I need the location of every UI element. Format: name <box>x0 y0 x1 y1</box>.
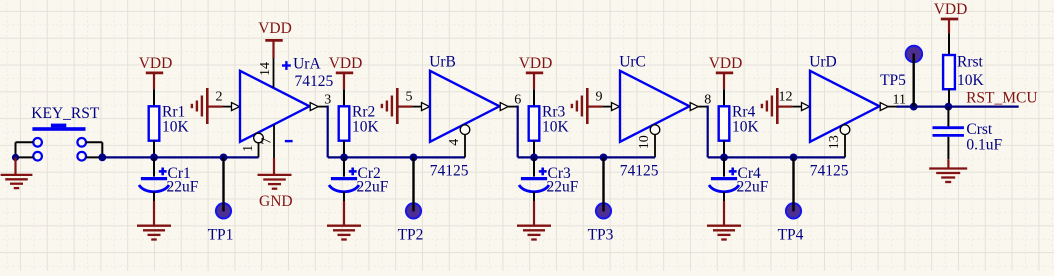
ground below Cr3 <box>517 226 551 240</box>
ground below Cr4 <box>707 226 741 240</box>
designator UrD <box>809 54 837 71</box>
svg-text:74125: 74125 <box>810 163 849 180</box>
wire node rail stage 2 <box>328 156 465 158</box>
svg-text:VDD: VDD <box>519 55 553 72</box>
wire signal-ground to pin 12 <box>777 105 792 107</box>
wire Crst to ground <box>947 137 949 169</box>
resistor Rrst 10K <box>943 55 955 89</box>
svg-text:VDD: VDD <box>709 55 743 72</box>
pin number 7 <box>259 138 274 145</box>
op-amp buffer UrD 74125 <box>810 71 880 142</box>
svg-text:0.1uF: 0.1uF <box>966 137 1002 154</box>
junction TP4 <box>790 154 798 162</box>
wire VDD to Rr2 <box>343 89 345 106</box>
svg-text:UrB: UrB <box>429 54 456 71</box>
power port VDD (Rr3) <box>519 55 553 89</box>
wire Cr4 to ground <box>723 192 725 226</box>
output pin 3 of UrA <box>310 103 326 111</box>
wire Rrst to node <box>948 89 950 106</box>
resistor Rr4 10K <box>719 106 730 140</box>
ground below Crst <box>929 169 967 183</box>
wire VDD to Rr1 <box>153 89 155 106</box>
capacitor Cr1 22uF <box>139 157 169 191</box>
ground below Cr1 <box>137 226 171 240</box>
capacitor Crst 0.1uF <box>933 107 964 136</box>
resistor Rr1 10K <box>149 106 160 140</box>
svg-text:22uF: 22uF <box>547 179 579 196</box>
junction TP1 <box>220 154 228 162</box>
value 22uF <box>357 179 389 196</box>
svg-text:UrC: UrC <box>619 54 646 71</box>
wire Rr2 to node <box>343 141 345 158</box>
svg-text:10K: 10K <box>732 119 760 136</box>
enable pin 10 of UrC (active-low bubble) <box>650 125 660 158</box>
junction Rr3/Cr3 node <box>530 154 538 162</box>
ground at key <box>1 157 33 188</box>
svg-text:10K: 10K <box>352 119 380 136</box>
svg-text:UrD: UrD <box>809 54 837 71</box>
net label GND <box>259 193 293 210</box>
wire VDD to Rrst <box>948 33 950 55</box>
designator UrB <box>429 54 456 71</box>
svg-text:22uF: 22uF <box>167 179 199 196</box>
signal-ground at input pin 12 of UrD <box>762 88 777 124</box>
label Crst <box>966 121 993 138</box>
pin 9 of UrC <box>603 103 620 111</box>
wire Rr4 to node <box>723 141 725 158</box>
label Rr3 <box>542 104 566 121</box>
svg-text:5: 5 <box>406 90 413 105</box>
wire signal-ground to pin 9 <box>587 105 602 107</box>
pin 7 of UrA <box>273 125 275 158</box>
svg-text:VDD: VDD <box>258 20 292 37</box>
pin number 4 <box>447 139 462 146</box>
svg-text:Rrst: Rrst <box>957 54 984 71</box>
value 10K <box>542 119 570 136</box>
wire Rr1 to node <box>153 141 155 158</box>
wire signal-ground to pin 2 <box>207 105 222 107</box>
junction TP2 <box>410 154 418 162</box>
svg-text:10K: 10K <box>542 119 570 136</box>
svg-text:7: 7 <box>259 138 274 145</box>
pin number 2 <box>216 90 223 105</box>
wire Cr1 to ground <box>153 192 155 226</box>
wire output UrD <box>897 105 1019 107</box>
junction TP3 <box>600 154 608 162</box>
pin number 6 <box>514 92 521 107</box>
value 10K (Rrst) <box>957 72 985 89</box>
pin number 14 <box>258 62 273 76</box>
svg-text:6: 6 <box>514 92 521 107</box>
pin 2 of UrA <box>223 103 240 111</box>
value 10K <box>162 119 190 136</box>
label TP3 <box>588 227 614 244</box>
enable pin 1 of UrA (active-low bubble) <box>254 133 264 157</box>
wire output UrA <box>327 107 328 158</box>
junction Rr2/Cr2 node <box>340 154 348 162</box>
svg-text:10: 10 <box>637 135 652 149</box>
test point TP5 <box>906 46 922 62</box>
pin 12 of UrD <box>793 103 810 111</box>
svg-text:KEY_RST: KEY_RST <box>31 105 100 122</box>
capacitor Cr4 22uF <box>709 157 739 191</box>
designator UrA <box>293 55 321 72</box>
label Rr1 <box>162 104 185 121</box>
value 10K <box>352 119 380 136</box>
svg-text:TP4: TP4 <box>778 227 804 244</box>
svg-text:VDD: VDD <box>329 55 363 72</box>
capacitor Cr3 22uF <box>519 157 549 191</box>
wire TP2 stem <box>412 157 414 211</box>
ground GND at UrA pin 7 <box>258 158 292 189</box>
label Rrst <box>957 54 984 71</box>
value 0.1uF <box>966 137 1002 154</box>
wire TP4 stem <box>792 157 794 211</box>
svg-text:3: 3 <box>324 92 331 107</box>
test point TP4 <box>786 203 801 218</box>
test point TP2 <box>406 203 421 218</box>
signal-ground at input pin 2 of UrA <box>192 88 207 124</box>
wire VDD to Rr3 <box>533 89 535 106</box>
pin number 5 <box>406 90 413 105</box>
svg-text:13: 13 <box>827 135 842 149</box>
svg-text:VDD: VDD <box>139 55 173 72</box>
svg-text:10K: 10K <box>162 119 190 136</box>
comment 74125 (UrA) <box>295 73 334 90</box>
svg-text:TP5: TP5 <box>880 72 906 89</box>
junction TP5 <box>910 103 918 111</box>
wire node rail stage 4 <box>708 156 845 158</box>
wire node rail stage 1 <box>102 156 258 158</box>
svg-text:8: 8 <box>704 92 711 107</box>
svg-text:Crst: Crst <box>966 121 993 138</box>
pin number 10 <box>637 135 652 149</box>
power port VDD (Rr2) <box>329 55 363 89</box>
svg-text:12: 12 <box>779 90 793 105</box>
op-amp buffer UrB 74125 <box>430 71 500 142</box>
svg-text:TP2: TP2 <box>398 227 424 244</box>
svg-text:22uF: 22uF <box>357 179 389 196</box>
wire Cr2 to ground <box>343 192 345 226</box>
ground below Cr2 <box>327 226 361 240</box>
op-amp buffer UrC 74125 <box>620 71 690 142</box>
svg-text:4: 4 <box>447 139 462 146</box>
pin number 9 <box>596 90 603 105</box>
comment 74125 (UrC) <box>620 163 659 180</box>
svg-text:UrA: UrA <box>293 55 321 72</box>
label Cr3 <box>548 165 572 182</box>
pin 5 of UrB <box>413 103 430 111</box>
value 22uF <box>167 179 199 196</box>
net label RST_MCU <box>966 90 1038 107</box>
capacitor Cr2 22uF <box>329 157 359 191</box>
svg-text:22uF: 22uF <box>737 179 769 196</box>
net label KEY_RST <box>31 105 100 122</box>
junction key-left <box>12 154 19 161</box>
wire output UrB <box>517 107 518 158</box>
wire signal-ground to pin 5 <box>397 105 412 107</box>
output pin 11 of UrD <box>880 103 896 111</box>
test point TP1 <box>216 203 231 218</box>
pin number 12 <box>779 90 793 105</box>
output pin 6 of UrB <box>500 103 516 111</box>
label Cr2 <box>358 165 381 182</box>
test point TP3 <box>596 203 611 218</box>
wire TP5 stem <box>913 54 915 107</box>
wire output UrC <box>707 107 708 158</box>
minus mark (UrA power) <box>285 140 293 142</box>
power port VDD (Rr4) <box>709 55 743 89</box>
designator UrC <box>619 54 646 71</box>
pin 14 of UrA <box>273 58 275 88</box>
pin number 8 <box>704 92 711 107</box>
wire Cr3 to ground <box>533 192 535 226</box>
enable pin 13 of UrD (active-low bubble) <box>840 125 850 158</box>
svg-text:2: 2 <box>216 90 223 105</box>
op-amp buffer UrA 74125 <box>240 71 310 142</box>
svg-text:VDD: VDD <box>934 1 968 18</box>
svg-text:GND: GND <box>259 193 293 210</box>
output pin 8 of UrC <box>690 103 706 111</box>
label TP4 <box>778 227 804 244</box>
svg-text:14: 14 <box>258 62 273 76</box>
enable pin 4 of UrB (active-low bubble) <box>460 125 470 158</box>
svg-text:RST_MCU: RST_MCU <box>966 90 1038 107</box>
svg-text:74125: 74125 <box>620 163 659 180</box>
wire Rr3 to node <box>533 141 535 158</box>
power port VDD (Rr1) <box>139 55 173 89</box>
power port VDD (UrA pin 14) <box>258 20 292 58</box>
svg-text:9: 9 <box>596 90 603 105</box>
label TP2 <box>398 227 424 244</box>
comment 74125 (UrB) <box>430 163 469 180</box>
power port VDD (Rrst) <box>934 1 968 33</box>
wire key left pins to ground <box>16 142 34 157</box>
svg-text:74125: 74125 <box>430 163 469 180</box>
label Rr2 <box>352 104 375 121</box>
label Cr1 <box>168 165 191 182</box>
resistor Rr2 10K <box>339 106 350 140</box>
value 22uF <box>737 179 769 196</box>
wire VDD to Rr4 <box>723 89 725 106</box>
pushbutton switch KEY_RST body <box>32 124 86 161</box>
wire key right pins to node <box>86 142 102 157</box>
pin number 3 <box>324 92 331 107</box>
junction Rrst/Crst <box>945 103 953 111</box>
svg-text:TP3: TP3 <box>588 227 614 244</box>
plus mark (UrA power) <box>282 61 291 70</box>
signal-ground at input pin 9 of UrC <box>572 88 587 124</box>
value 10K <box>732 119 760 136</box>
wire TP1 stem <box>222 157 224 211</box>
wire node rail stage 3 <box>518 156 655 158</box>
label Rr4 <box>732 104 756 121</box>
svg-text:1: 1 <box>241 145 256 152</box>
label TP5 <box>880 72 906 89</box>
junction Rr4/Cr4 node <box>720 154 728 162</box>
label TP1 <box>208 227 234 244</box>
svg-text:74125: 74125 <box>295 73 334 90</box>
junction Rr1/Cr1 node <box>150 154 158 162</box>
label Cr4 <box>738 165 762 182</box>
pin number 11 <box>893 92 906 107</box>
wire TP3 stem <box>602 157 604 211</box>
pin number 1 <box>241 145 256 152</box>
comment 74125 (UrD) <box>810 163 849 180</box>
value 22uF <box>547 179 579 196</box>
junction key-right <box>98 154 106 162</box>
signal-ground at input pin 5 of UrB <box>382 88 397 124</box>
pin number 13 <box>827 135 842 149</box>
resistor Rr3 10K <box>529 106 540 140</box>
svg-text:10K: 10K <box>957 72 985 89</box>
svg-text:11: 11 <box>893 92 906 107</box>
svg-text:TP1: TP1 <box>208 227 234 244</box>
